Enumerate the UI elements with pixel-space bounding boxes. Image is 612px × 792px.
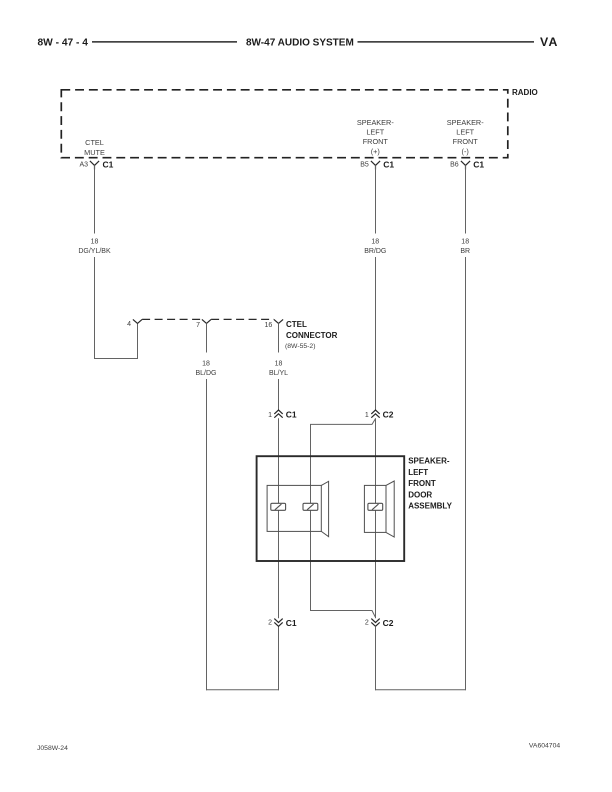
- CTEL connector pin 7 symbol: [202, 319, 211, 323]
- wire pin 16 to connector C1 pin 1: [278, 379, 280, 410]
- wire horizontal to pin 4: [94, 358, 138, 360]
- svg-text:VA604704: VA604704: [529, 743, 560, 750]
- svg-text:C1: C1: [383, 159, 394, 169]
- radio pin A3 connector symbol: [90, 161, 99, 170]
- svg-text:FRONT: FRONT: [363, 137, 389, 146]
- svg-text:C2: C2: [383, 618, 394, 628]
- svg-text:7: 7: [196, 322, 200, 329]
- left speaker cone: [321, 481, 328, 536]
- svg-text:FRONT: FRONT: [408, 479, 436, 488]
- svg-text:(8W-55-2): (8W-55-2): [285, 343, 315, 350]
- inline connector C1 pin 1 (chevrons up): [274, 410, 282, 418]
- radio pin B6 connector symbol: [461, 161, 470, 170]
- svg-text:FRONT: FRONT: [453, 137, 479, 146]
- svg-text:DG/YL/BK: DG/YL/BK: [78, 248, 111, 255]
- speaker assembly box: [257, 456, 405, 561]
- wire bottom horizontal C2 to B6: [375, 689, 466, 691]
- wire from B5 upper segment: [375, 165, 377, 233]
- wire from A3 lower segment: [94, 257, 96, 359]
- svg-text:1: 1: [365, 412, 369, 419]
- radio pin B5 connector symbol: [371, 161, 380, 170]
- header rule left: [92, 41, 237, 43]
- wire below C2 pin 2: [375, 626, 377, 690]
- svg-text:C1: C1: [286, 618, 297, 628]
- svg-text:A3: A3: [79, 161, 88, 168]
- wire B5 to connector C2 pin 1: [375, 257, 377, 410]
- svg-text:16: 16: [265, 322, 273, 329]
- wire B6 down to bottom: [465, 257, 467, 690]
- svg-text:(+): (+): [371, 147, 380, 156]
- radio box (dashed): [61, 90, 508, 158]
- svg-text:18: 18: [275, 361, 283, 368]
- CTEL connector pin 4 symbol: [133, 319, 142, 323]
- svg-text:2: 2: [268, 620, 272, 627]
- left speaker coil 1: [271, 503, 286, 510]
- svg-text:1: 1: [268, 412, 272, 419]
- svg-text:RADIO: RADIO: [512, 88, 538, 97]
- left speaker coil 2: [303, 503, 318, 510]
- svg-text:8W-47 AUDIO SYSTEM: 8W-47 AUDIO SYSTEM: [246, 38, 354, 49]
- svg-text:CONNECTOR: CONNECTOR: [286, 331, 338, 340]
- svg-text:LEFT: LEFT: [456, 128, 474, 137]
- svg-text:LEFT: LEFT: [408, 468, 428, 477]
- CTEL connector pin 16 symbol: [274, 319, 283, 323]
- svg-text:18: 18: [371, 239, 379, 246]
- wire from B6 upper segment: [465, 165, 467, 233]
- svg-text:4: 4: [127, 321, 131, 328]
- inline connector C2 pin 2 (chevrons down): [371, 619, 379, 627]
- svg-text:C1: C1: [286, 409, 297, 419]
- svg-text:J058W-24: J058W-24: [37, 745, 68, 752]
- wire from pin 7 long segment down: [206, 379, 208, 690]
- svg-text:18: 18: [461, 239, 469, 246]
- wire from A3 upper segment: [94, 165, 96, 233]
- svg-text:C1: C1: [103, 159, 114, 169]
- inline connector C1 pin 2 (chevrons down): [274, 619, 282, 627]
- svg-text:SPEAKER-: SPEAKER-: [408, 457, 450, 466]
- svg-text:(-): (-): [462, 147, 469, 156]
- svg-text:VA: VA: [540, 35, 559, 49]
- svg-text:B5: B5: [360, 161, 369, 168]
- CTEL connector dashed line segment 7-16: [211, 318, 274, 320]
- svg-text:B6: B6: [450, 161, 459, 168]
- wire from pin 7 upper segment: [206, 323, 208, 352]
- wire C1 through left speaker: [278, 418, 280, 618]
- right speaker body: [364, 485, 386, 532]
- svg-text:SPEAKER-: SPEAKER-: [357, 118, 394, 127]
- wire C2 through right speaker: [375, 418, 377, 618]
- wire bottom horizontal pin7 to C1: [206, 689, 279, 691]
- right speaker coil: [368, 503, 383, 510]
- svg-text:BR: BR: [460, 248, 470, 255]
- svg-text:ASSEMBLY: ASSEMBLY: [408, 502, 452, 511]
- svg-text:C1: C1: [473, 159, 484, 169]
- svg-text:2: 2: [365, 620, 369, 627]
- right speaker cone: [386, 481, 394, 537]
- header rule right: [358, 41, 535, 43]
- svg-text:BR/DG: BR/DG: [364, 248, 386, 255]
- wire up to CTEL pin 4: [137, 323, 139, 359]
- inline connector C2 pin 1 (chevrons up): [371, 410, 379, 418]
- svg-text:DOOR: DOOR: [408, 490, 432, 499]
- svg-text:SPEAKER-: SPEAKER-: [447, 118, 484, 127]
- CTEL connector dashed line segment 4-7: [142, 318, 202, 320]
- svg-text:LEFT: LEFT: [366, 128, 384, 137]
- svg-text:CTEL: CTEL: [85, 138, 104, 147]
- svg-text:BL/YL: BL/YL: [269, 370, 288, 377]
- svg-text:BL/DG: BL/DG: [195, 370, 216, 377]
- svg-text:C2: C2: [383, 409, 394, 419]
- wire from pin 16 upper segment: [278, 323, 280, 352]
- left speaker body: [267, 485, 321, 531]
- svg-text:18: 18: [91, 239, 99, 246]
- svg-text:18: 18: [202, 361, 210, 368]
- svg-text:8W - 47 - 4: 8W - 47 - 4: [38, 38, 89, 49]
- wire up from bottom horizontal to connector C1 pin 2: [278, 626, 280, 690]
- svg-text:CTEL: CTEL: [286, 320, 307, 329]
- branch wire top diagonal into C2: [311, 419, 376, 617]
- svg-text:MUTE: MUTE: [84, 148, 105, 157]
